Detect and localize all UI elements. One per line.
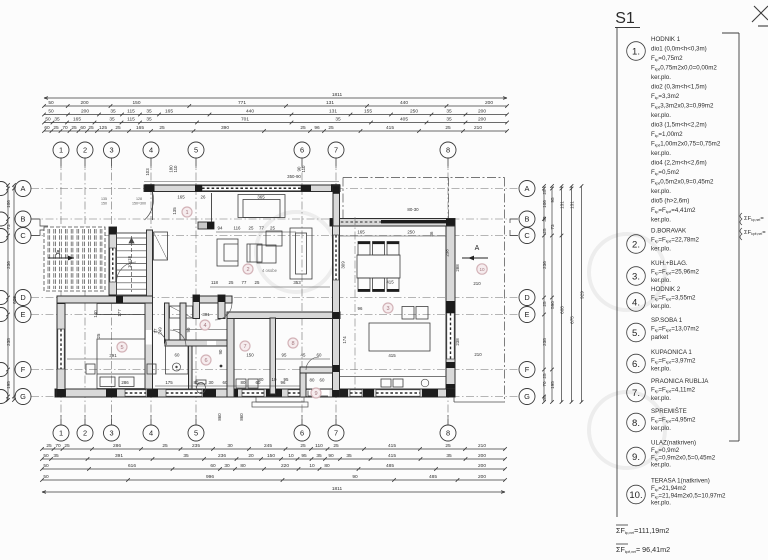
svg-text:2: 2: [83, 146, 87, 155]
grid bubble G left: [15, 389, 31, 405]
wall west-east connector wall: [333, 186, 340, 226]
furniture chair top 3: [387, 242, 399, 256]
room number 2 (red): [243, 264, 253, 274]
furniture sofa: [238, 195, 285, 218]
dimension chain bottom row4: [40, 474, 507, 482]
room number 3 (red): [383, 303, 393, 313]
svg-text:77: 77: [259, 226, 264, 231]
entry side wall: [211, 193, 213, 222]
dimension chain top row4: [42, 125, 509, 133]
furniture armchair west: [217, 239, 238, 266]
svg-text:50: 50: [48, 100, 54, 106]
svg-text:6.: 6.: [632, 359, 640, 370]
svg-text:106: 106: [6, 200, 11, 208]
svg-text:365: 365: [257, 195, 265, 200]
svg-text:parket: parket: [651, 334, 668, 341]
grid bubble B left: [15, 211, 31, 227]
svg-text:25: 25: [300, 125, 306, 131]
svg-text:128: 128: [136, 197, 142, 201]
room number 7 (red): [240, 341, 250, 351]
svg-text:95: 95: [301, 453, 307, 459]
svg-text:135: 135: [101, 197, 107, 201]
furniture hall closet: [170, 306, 193, 318]
vertical dimension chain left chain 2: [12, 183, 17, 402]
wall living-kitchen wall: [333, 226, 340, 397]
room number 4 (red): [200, 320, 210, 330]
wall terrace east wall: [109, 227, 117, 302]
svg-text:45: 45: [301, 353, 306, 358]
svg-text:165: 165: [357, 230, 365, 235]
svg-text:E: E: [525, 310, 530, 319]
section marker A left: [48, 250, 74, 260]
svg-text:3: 3: [386, 306, 389, 312]
grid bubble A left: [15, 181, 31, 197]
terrace floor edge: [454, 401, 505, 403]
section marker A right: [462, 245, 488, 260]
svg-text:26: 26: [201, 195, 206, 200]
svg-text:118: 118: [211, 280, 219, 285]
svg-text:ΣFkp,net=111,19m2: ΣFkp,net=111,19m2: [616, 526, 669, 535]
dimension chain bottom row2: [40, 453, 507, 461]
svg-text:25: 25: [542, 373, 547, 379]
legend panel: [615, 6, 768, 554]
wall praonica-spremiste thin wall: [270, 318, 276, 394]
svg-text:236: 236: [218, 453, 226, 459]
svg-text:210: 210: [478, 443, 486, 449]
svg-text:KUPAONICA 1: KUPAONICA 1: [651, 349, 692, 356]
svg-text:60: 60: [317, 353, 322, 358]
furniture coffee table side: [247, 244, 262, 262]
svg-text:115: 115: [127, 117, 135, 123]
grid bubble 4 bottom: [143, 425, 159, 441]
svg-text:5: 5: [120, 345, 123, 351]
svg-text:50: 50: [45, 117, 51, 123]
dimension chain top row2: [42, 109, 509, 117]
svg-text:236: 236: [6, 261, 11, 269]
svg-text:Fkp=Fkpē=3,55m2: Fkp=Fkpē=3,55m2: [651, 295, 696, 302]
kitchen counter: [340, 376, 446, 378]
furniture side table: [266, 231, 282, 246]
svg-text:Fkpē3,3m2x0,3=0,99m2: Fkpē3,3m2x0,3=0,99m2: [651, 103, 714, 110]
wall bath divider wall: [189, 346, 193, 389]
svg-text:PRAONICA RUBLJA: PRAONICA RUBLJA: [651, 378, 709, 385]
svg-text:4.: 4.: [632, 298, 640, 309]
svg-text:70: 70: [62, 125, 68, 131]
svg-text:Fkp=21,94m2x0,5=10,97m2: Fkp=21,94m2x0,5=10,97m2: [651, 492, 726, 499]
furniture chair top 2: [373, 242, 385, 256]
svg-text:35: 35: [316, 453, 322, 459]
svg-text:353: 353: [293, 280, 301, 285]
svg-text:6: 6: [300, 429, 304, 438]
svg-text:7.: 7.: [632, 388, 640, 399]
svg-text:25: 25: [445, 125, 451, 131]
legend item 10 TERASA 1: [627, 478, 726, 507]
furniture chair bottom 3: [387, 278, 399, 292]
svg-text:3: 3: [109, 429, 113, 438]
legend item 7 PRAONICA RUBLJA: [627, 378, 710, 402]
svg-text:200: 200: [478, 117, 486, 123]
dimension chain top row3: [42, 117, 509, 125]
svg-text:60: 60: [223, 380, 228, 385]
svg-text:80: 80: [240, 463, 246, 469]
vertical dimension chain right chain 2: [550, 184, 555, 404]
svg-text:165: 165: [165, 109, 173, 115]
svg-text:F: F: [525, 365, 530, 374]
svg-text:4: 4: [203, 323, 206, 329]
svg-text:25: 25: [542, 228, 547, 234]
wall north wall of storage rooms: [227, 312, 340, 319]
svg-text:73: 73: [6, 224, 11, 230]
svg-text:S1: S1: [615, 10, 635, 27]
svg-text:77: 77: [242, 280, 247, 285]
svg-text:HODNIK 1: HODNIK 1: [651, 36, 681, 43]
terrace hatched deck left: [44, 227, 105, 291]
svg-text:238: 238: [542, 338, 547, 346]
svg-text:35: 35: [346, 453, 352, 459]
svg-text:25: 25: [71, 125, 77, 131]
grid bubble F right: [519, 362, 535, 378]
svg-text:96: 96: [314, 125, 320, 131]
wall closet side wall: [165, 303, 170, 343]
svg-text:5: 5: [194, 429, 198, 438]
svg-text:6: 6: [300, 146, 304, 155]
svg-text:110: 110: [301, 165, 306, 173]
svg-text:391: 391: [109, 353, 117, 358]
svg-text:ker.plo.: ker.plo.: [651, 150, 671, 157]
svg-text:dio5 (h>2,6m): dio5 (h>2,6m): [651, 198, 689, 205]
svg-text:A: A: [56, 250, 61, 257]
svg-text:440: 440: [246, 109, 254, 115]
svg-text:200: 200: [478, 109, 486, 115]
wall top wall west part: [144, 185, 340, 192]
wall hall west nib wall: [193, 295, 200, 319]
dimension chain bottom row3: [40, 463, 507, 471]
svg-text:73: 73: [550, 224, 555, 230]
svg-text:1: 1: [59, 429, 63, 438]
wall west wall: [57, 296, 65, 397]
svg-text:96: 96: [358, 306, 363, 311]
svg-text:135: 135: [172, 207, 177, 215]
svg-text:25: 25: [328, 125, 334, 131]
svg-text:50: 50: [43, 463, 49, 469]
svg-text:195: 195: [550, 381, 555, 389]
stairs: [117, 233, 147, 295]
svg-text:ker.plo.: ker.plo.: [651, 277, 671, 284]
svg-text:4 osobe: 4 osobe: [262, 268, 278, 273]
svg-text:25: 25: [115, 125, 121, 131]
svg-text:ker.plo.: ker.plo.: [651, 74, 671, 81]
wall bedroom north wall: [57, 296, 153, 303]
vertical dimension chain right chain 5 overall: [580, 184, 585, 404]
svg-text:1: 1: [59, 146, 63, 155]
interior door arcs: [117, 262, 320, 370]
furniture shower enclosure: [166, 346, 189, 374]
svg-text:35: 35: [53, 453, 59, 459]
svg-text:7: 7: [243, 344, 246, 350]
svg-text:D: D: [20, 293, 25, 302]
grid bubble E left: [15, 307, 31, 323]
svg-text:115: 115: [127, 109, 135, 115]
svg-text:95: 95: [550, 197, 555, 203]
furniture nightstand 1: [86, 364, 95, 374]
svg-text:Fkpē1,00m2x0,75=0,75m2: Fkpē1,00m2x0,75=0,75m2: [651, 141, 721, 148]
wall hall north wall segment: [193, 296, 232, 303]
dimension chain bottom overall 1811: [42, 486, 505, 493]
svg-text:415: 415: [386, 280, 394, 285]
svg-text:245: 245: [264, 443, 272, 449]
svg-text:165: 165: [73, 117, 81, 123]
svg-text:9.: 9.: [632, 452, 640, 463]
svg-text:ker.plo.: ker.plo.: [651, 188, 671, 195]
grid bubble 7 top: [328, 142, 344, 158]
wall bedroom east wall: [145, 303, 153, 389]
svg-text:F: F: [21, 365, 26, 374]
svg-text:Fkp=Fkpē=22,78m2: Fkp=Fkpē=22,78m2: [651, 237, 700, 244]
svg-text:ker.plo.: ker.plo.: [651, 217, 671, 224]
svg-text:210: 210: [474, 352, 482, 357]
svg-text:25: 25: [445, 443, 451, 449]
svg-text:3.: 3.: [632, 272, 640, 283]
svg-text:8: 8: [446, 429, 450, 438]
svg-text:25: 25: [88, 125, 94, 131]
svg-text:Fkp=Fkpē=3,97m2: Fkp=Fkpē=3,97m2: [651, 357, 696, 364]
svg-text:165: 165: [177, 195, 185, 200]
svg-text:996: 996: [206, 474, 214, 480]
wall stairs east wall: [147, 230, 153, 296]
svg-text:860: 860: [239, 413, 244, 421]
svg-text:286: 286: [113, 443, 121, 449]
svg-text:7: 7: [334, 429, 338, 438]
svg-text:25: 25: [64, 443, 70, 449]
svg-text:25: 25: [53, 125, 59, 131]
svg-text:200: 200: [80, 100, 88, 106]
svg-text:80: 80: [241, 380, 246, 385]
svg-text:1811: 1811: [332, 92, 343, 98]
furniture pillow 1: [100, 377, 115, 387]
svg-text:80: 80: [194, 380, 199, 385]
svg-text:110: 110: [173, 165, 178, 173]
legend item 6 KUPAONICA 1: [627, 349, 696, 373]
svg-text:485: 485: [429, 474, 437, 480]
wall hall-bath west wall: [180, 303, 186, 340]
svg-text:ker.plo.: ker.plo.: [651, 112, 671, 119]
svg-text:ker.plo.: ker.plo.: [651, 462, 671, 469]
grid bubble 1 bottom: [53, 425, 69, 441]
svg-text:150: 150: [101, 202, 107, 206]
svg-text:415: 415: [388, 353, 396, 358]
legend item 8 SPREMIŠTE: [627, 408, 696, 432]
svg-text:2: 2: [83, 429, 87, 438]
watermark circles (faint): [256, 212, 665, 468]
furniture chair bottom 1: [358, 278, 370, 292]
svg-text:35: 35: [446, 117, 452, 123]
svg-text:6: 6: [204, 358, 207, 364]
svg-text:35: 35: [542, 395, 547, 401]
svg-text:G: G: [524, 392, 530, 401]
furniture bar stool 2: [416, 307, 428, 320]
svg-text:286: 286: [121, 380, 129, 385]
wall south wall: [55, 389, 455, 397]
svg-text:350-90: 350-90: [287, 174, 301, 179]
svg-text:dio4 (2,2m<h<2,6m): dio4 (2,2m<h<2,6m): [651, 160, 707, 167]
grid bubble C right: [519, 228, 535, 244]
svg-text:210: 210: [474, 125, 482, 131]
svg-text:60: 60: [210, 463, 216, 469]
svg-text:G: G: [20, 392, 26, 401]
svg-text:150: 150: [132, 100, 140, 106]
svg-text:7: 7: [334, 146, 338, 155]
room number 10 (red): [477, 264, 487, 274]
svg-text:1.: 1.: [632, 47, 640, 58]
svg-text:25: 25: [270, 226, 275, 231]
svg-text:175: 175: [165, 380, 173, 385]
svg-text:155: 155: [364, 109, 372, 115]
grid bubble C left: [15, 228, 31, 244]
svg-text:25: 25: [96, 333, 101, 338]
grid bubble 2 bottom: [77, 425, 93, 441]
svg-text:125: 125: [99, 125, 107, 131]
wall ulaz west wall: [300, 367, 306, 397]
svg-text:35: 35: [54, 117, 60, 123]
svg-text:9: 9: [314, 391, 317, 397]
furniture dining table: [357, 255, 400, 278]
vertical dimension chain right chain 4: [570, 184, 575, 404]
svg-text:60: 60: [44, 125, 50, 131]
svg-text:C: C: [20, 231, 26, 240]
wall ulaz top wall: [300, 367, 333, 373]
svg-text:220: 220: [281, 463, 289, 469]
svg-text:35: 35: [446, 109, 452, 115]
svg-text:80: 80: [310, 378, 315, 383]
svg-text:90: 90: [218, 349, 223, 354]
svg-text:A: A: [475, 245, 480, 252]
grid bubble D right: [519, 290, 535, 306]
svg-text:195: 195: [6, 381, 11, 389]
svg-text:10: 10: [272, 377, 277, 382]
svg-text:10: 10: [288, 453, 294, 459]
grid bubble 7 bottom: [328, 425, 344, 441]
svg-text:A: A: [21, 184, 26, 193]
svg-text:8: 8: [291, 341, 294, 347]
svg-text:485: 485: [386, 463, 394, 469]
furniture dryer: [248, 379, 258, 388]
vertical dimension chain left chain 1: [6, 183, 11, 402]
svg-text:dio3 (1,5m<h<2,2m): dio3 (1,5m<h<2,2m): [651, 122, 707, 129]
canopy outline over terrace (dash-dot): [343, 178, 505, 403]
svg-text:1: 1: [185, 210, 188, 216]
svg-text:C: C: [524, 231, 530, 240]
svg-text:50: 50: [43, 474, 49, 480]
grid bubble 6 top: [294, 142, 310, 158]
corner mark: [752, 6, 768, 26]
svg-text:608: 608: [560, 306, 565, 314]
svg-text:35: 35: [335, 117, 341, 123]
svg-text:177: 177: [117, 309, 122, 317]
svg-text:70: 70: [542, 381, 547, 387]
grid bubble 4 top: [143, 142, 159, 158]
svg-text:dio1 (0,0m<h<0,3m): dio1 (0,0m<h<0,3m): [651, 46, 707, 53]
furniture armchair east: [257, 245, 276, 263]
svg-text:90: 90: [352, 474, 358, 480]
svg-text:99: 99: [186, 327, 191, 332]
grid bubble G right: [519, 389, 535, 405]
svg-text:80-30: 80-30: [407, 207, 419, 212]
svg-text:771: 771: [238, 100, 246, 106]
svg-text:238: 238: [6, 338, 11, 346]
svg-text:35: 35: [542, 216, 547, 222]
svg-text:30: 30: [224, 463, 230, 469]
svg-text:4: 4: [149, 429, 153, 438]
svg-text:140: 140: [93, 310, 98, 318]
svg-text:250: 250: [410, 109, 418, 115]
svg-text:150: 150: [246, 353, 254, 358]
svg-text:B: B: [525, 215, 530, 224]
legend item 9 ULAZ: [627, 440, 716, 469]
dimension chain top row1: [42, 100, 509, 108]
svg-text:Fkp=Fkpē=4,41m2: Fkp=Fkpē=4,41m2: [651, 207, 696, 214]
grid bubble 3 top: [104, 142, 120, 158]
svg-text:Fkp=0,9m2x0,5=0,45m2: Fkp=0,9m2x0,5=0,45m2: [651, 454, 716, 461]
svg-text:8.: 8.: [632, 418, 640, 429]
svg-text:1811: 1811: [332, 486, 343, 492]
svg-text:103: 103: [145, 168, 150, 176]
svg-text:116: 116: [234, 226, 242, 231]
svg-text:405: 405: [400, 117, 408, 123]
svg-text:25: 25: [333, 443, 339, 449]
svg-text:200: 200: [485, 100, 493, 106]
grid axes dashed lines: [31, 158, 519, 425]
svg-text:35: 35: [446, 453, 452, 459]
legend item 2 D.BORAVAK: [627, 228, 700, 254]
svg-text:80: 80: [324, 463, 330, 469]
svg-text:35: 35: [183, 453, 189, 459]
svg-text:ker.plo.: ker.plo.: [651, 425, 671, 432]
svg-text:10: 10: [479, 267, 485, 272]
svg-text:30: 30: [227, 443, 233, 449]
svg-text:440: 440: [400, 100, 408, 106]
wall top wall east part (kitchen): [330, 219, 455, 227]
svg-text:110: 110: [315, 443, 323, 449]
room number 1 (red): [182, 207, 192, 217]
room number 5 (red): [117, 342, 127, 352]
svg-text:238: 238: [455, 338, 460, 346]
svg-text:25: 25: [46, 443, 52, 449]
svg-text:860: 860: [217, 413, 222, 421]
svg-text:ker.plo.: ker.plo.: [651, 500, 671, 507]
svg-text:B: B: [21, 215, 26, 224]
svg-text:5: 5: [194, 146, 198, 155]
furniture chair top 1: [358, 242, 370, 256]
svg-text:60: 60: [80, 125, 86, 131]
svg-text:8: 8: [446, 146, 450, 155]
furniture sink basin 2: [393, 379, 403, 387]
furniture nightstand 2: [147, 364, 156, 374]
svg-text:131: 131: [326, 100, 334, 106]
svg-text:150: 150: [267, 453, 275, 459]
furniture chair bottom 2: [373, 278, 385, 292]
svg-text:250: 250: [407, 230, 415, 235]
legend item 1 HODNIK 1: [627, 36, 721, 224]
svg-text:10.: 10.: [629, 490, 642, 501]
svg-text:5.: 5.: [632, 328, 640, 339]
grid bubble 1 top: [53, 142, 69, 158]
svg-text:2: 2: [246, 267, 249, 273]
svg-text:94: 94: [218, 226, 223, 231]
svg-text:235: 235: [192, 443, 200, 449]
svg-text:KUH.+BLAG.: KUH.+BLAG.: [651, 260, 688, 267]
furniture tv cabinet: [290, 228, 312, 279]
furniture wc tank: [196, 380, 206, 384]
